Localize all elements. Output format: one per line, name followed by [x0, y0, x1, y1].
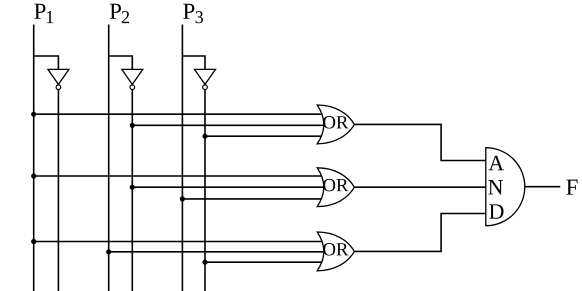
label F output	[566, 180, 577, 195]
wire OR2 output to AND input 2	[354, 186, 490, 188]
OR gate 1	[317, 105, 354, 144]
wire OR3 input row from P2	[109, 251, 330, 253]
wire OR2 input row from P2-inverted	[132, 186, 330, 188]
node junction P3-inverted row3	[202, 134, 207, 139]
node junction P2-inverted row2	[130, 123, 135, 128]
wire P3 input vertical line	[181, 25, 183, 291]
inverter NOT gate on P3	[195, 69, 216, 89]
node junction P1 row4	[31, 173, 36, 178]
wire P1 input vertical line	[33, 25, 35, 291]
wire OR2 input row from P3	[182, 198, 328, 200]
wire OR2 input row from P1	[34, 175, 328, 177]
inverter NOT gate on P2	[122, 69, 143, 89]
OR gate 2	[317, 168, 354, 207]
wire OR1 output to AND input 1	[354, 124, 490, 160]
label P1	[34, 4, 53, 23]
label P2	[110, 4, 129, 23]
node junction P2 row8	[106, 249, 111, 254]
inverter NOT gate on P1	[48, 69, 69, 89]
AND gate	[486, 148, 525, 226]
wire OR1 input row from P3-inverted	[205, 135, 328, 137]
wire P1-inverted vertical line	[57, 87, 59, 291]
label P3	[183, 4, 203, 23]
wire OR3 input row from P3-inverted	[205, 261, 328, 263]
wire P3-inverted vertical line	[204, 87, 206, 291]
wire OR3 output to AND input 3	[354, 214, 490, 252]
node junction P3 row6	[180, 196, 185, 201]
node junction P1 row7	[31, 239, 36, 244]
wire P3 inverter branch	[182, 56, 205, 71]
wire OR1 input row from P1	[34, 113, 328, 115]
wire OR1 input row from P2-inverted	[132, 124, 330, 126]
node junction P1 row1	[31, 112, 36, 117]
wire P2 inverter branch	[109, 56, 133, 71]
node junction P2-inverted row5	[130, 185, 135, 190]
OR gate 3	[317, 232, 354, 271]
wire P1 inverter branch	[34, 56, 59, 71]
wire P2-inverted vertical line	[131, 87, 133, 291]
wire OR3 input row from P1	[34, 241, 328, 243]
wire P2 input vertical line	[108, 25, 110, 291]
node junction P3-inverted row9	[202, 260, 207, 265]
wire AND output	[525, 186, 560, 188]
